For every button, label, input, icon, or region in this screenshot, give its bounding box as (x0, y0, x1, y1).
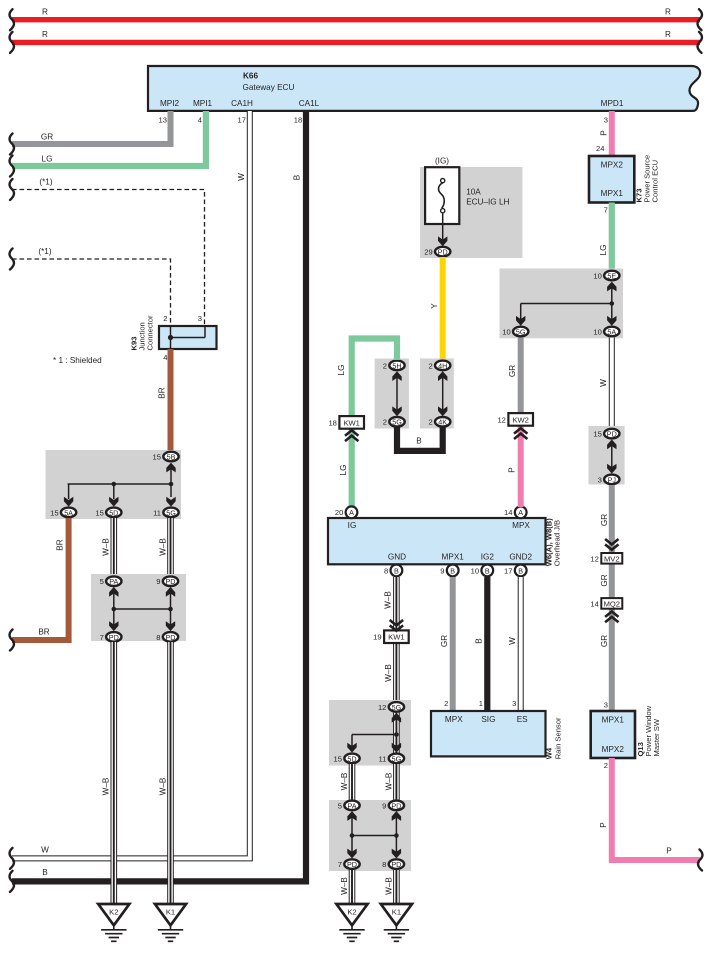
svg-text:10: 10 (471, 566, 479, 575)
wire break (10, 249, 14, 270)
svg-text:GR: GR (600, 574, 609, 586)
svg-text:15: 15 (50, 508, 58, 517)
wire 4H to 4K (442, 375, 444, 412)
svg-text:8: 8 (156, 633, 160, 642)
svg-text:LG: LG (339, 465, 348, 476)
wire B (CA1L) (12, 111, 306, 881)
wire to 5D (113, 484, 115, 499)
svg-text:B: B (518, 566, 523, 575)
svg-text:LG: LG (42, 155, 53, 164)
svg-text:K1: K1 (392, 908, 401, 917)
wire W-B (5G to PD) (167, 518, 174, 576)
ground K2 (left) (98, 904, 129, 941)
svg-text:W: W (41, 846, 49, 855)
connector MV2 (12) (590, 553, 622, 564)
connector PD (382, 801, 404, 811)
svg-text:3: 3 (198, 314, 202, 323)
svg-text:4: 4 (163, 353, 167, 362)
svg-text:BR: BR (158, 387, 167, 398)
connector PA (100, 576, 122, 586)
wire R (bus 2) (12, 40, 700, 45)
svg-text:PJ: PJ (608, 475, 617, 484)
wire W-B (5D to PA) (349, 764, 356, 800)
svg-text:W: W (237, 173, 246, 181)
connector 5G (153, 508, 179, 518)
wire (5B to bus) (170, 466, 172, 497)
wire GR (PJ to Q13 via MV2/MQ2) (609, 485, 615, 711)
svg-text:2: 2 (383, 361, 387, 370)
arrow into 5G (11) (392, 743, 401, 753)
svg-text:P: P (666, 847, 672, 856)
svg-text:MPX1: MPX1 (442, 552, 465, 561)
wire W-B (5D to PA) (111, 518, 118, 576)
svg-text:17: 17 (504, 566, 512, 575)
pin 17 B (J/B GND2) (504, 565, 527, 577)
wire 5H to 5G (396, 375, 398, 412)
svg-text:MQ2: MQ2 (604, 599, 620, 608)
svg-text:9: 9 (382, 801, 386, 810)
connector 5H (383, 361, 405, 371)
svg-text:W–B: W–B (340, 772, 349, 790)
bus wire (352, 835, 396, 837)
shaded junction block (5E/5G/5A) (500, 269, 624, 339)
svg-text:5H: 5H (392, 361, 401, 370)
svg-text:B: B (42, 868, 48, 877)
ground K1 (middle) (381, 904, 412, 941)
wire break (10, 179, 14, 200)
wire W (GND2 to rain sensor ES) (518, 577, 524, 711)
svg-text:KW1: KW1 (343, 418, 359, 427)
svg-text:IG: IG (348, 521, 357, 530)
arrow into 5A (64, 497, 73, 507)
pin 10 B (J/B IG2) (471, 565, 494, 577)
wire W-B (PD to ground K1) (167, 642, 174, 904)
connector PD (593, 429, 619, 439)
connector PA (338, 801, 360, 811)
wire P (MPD1 to K73) (609, 111, 615, 156)
svg-text:14: 14 (590, 599, 598, 608)
junction left (350, 833, 355, 838)
svg-text:PD: PD (391, 860, 401, 869)
svg-text:MPX2: MPX2 (602, 745, 625, 754)
svg-text:P: P (599, 822, 608, 828)
shield wire (*1) to K93 pin 2 (12, 259, 171, 326)
svg-text:20: 20 (335, 508, 343, 517)
svg-text:K2: K2 (109, 908, 118, 917)
arrow into PA (109, 587, 118, 597)
junction at 5G branch (169, 482, 174, 487)
arrow into 5A (10) (607, 316, 616, 326)
svg-text:2: 2 (163, 314, 167, 323)
svg-text:2: 2 (604, 761, 608, 770)
arrow into PD (8) (392, 849, 401, 859)
svg-text:5B: 5B (167, 452, 176, 461)
svg-text:13: 13 (159, 115, 167, 124)
svg-text:MPX: MPX (512, 521, 530, 530)
bus wire (68, 483, 171, 485)
svg-text:Rain Sensor: Rain Sensor (553, 717, 562, 759)
arrow into 5B (166, 463, 175, 473)
connector 5G (383, 417, 405, 427)
svg-text:PA: PA (109, 577, 118, 586)
fuse 10A ECU-IG LH (425, 167, 459, 224)
svg-text:2: 2 (428, 418, 432, 427)
connector PD (424, 247, 450, 257)
connector 5G (502, 327, 528, 337)
wire W-B (through 5G block) (393, 710, 400, 755)
svg-text:12: 12 (378, 703, 386, 712)
svg-text:15: 15 (95, 508, 103, 517)
wire fuse to 29 PD (442, 213, 444, 240)
svg-text:ES: ES (517, 715, 528, 724)
svg-text:19: 19 (373, 633, 381, 642)
connector MQ2 (14) (590, 598, 622, 609)
wire W (CA1H) (12, 111, 250, 858)
svg-text:17: 17 (238, 115, 246, 124)
svg-text:Control ECU: Control ECU (651, 160, 660, 203)
junction (610, 301, 615, 306)
svg-text:9: 9 (156, 577, 160, 586)
wire W (5A to PD) (609, 338, 615, 430)
svg-text:(*1): (*1) (39, 178, 52, 187)
arrow into 5E (607, 282, 616, 292)
arrow into 5G (2) (392, 406, 401, 416)
svg-text:Connector: Connector (146, 315, 155, 351)
svg-text:10A: 10A (466, 188, 481, 197)
svg-text:3: 3 (512, 699, 516, 708)
wire to 5D (351, 735, 353, 748)
junction right (168, 607, 173, 612)
svg-text:5G: 5G (166, 508, 176, 517)
svg-text:PD: PD (607, 430, 617, 439)
svg-text:W–B: W–B (159, 538, 168, 556)
wire W-B (PD to ground K2) (349, 870, 356, 904)
connector 5A (50, 508, 76, 518)
svg-text:15: 15 (593, 430, 601, 439)
svg-text:W–B: W–B (384, 591, 393, 609)
svg-text:MPX1: MPX1 (602, 716, 625, 725)
arrow into PJ (3) (607, 464, 616, 474)
wire to 5G (520, 304, 522, 321)
pin 14 A (J/B MPX) (504, 506, 527, 518)
connector 4H (428, 361, 450, 371)
svg-text:3: 3 (604, 115, 608, 124)
wire break (10, 156, 14, 177)
connector KW1 (18) (328, 416, 364, 429)
arrow into PD (7) (347, 849, 356, 859)
svg-text:W4: W4 (544, 747, 553, 759)
svg-text:B: B (450, 566, 455, 575)
bus wire (521, 303, 612, 305)
wire 5E bus (611, 287, 613, 320)
svg-text:Gateway ECU: Gateway ECU (243, 83, 295, 92)
svg-text:P: P (600, 130, 609, 136)
shaded junction block (4H/4K) (420, 359, 454, 429)
wire PA to PD (351, 816, 353, 852)
svg-text:A: A (349, 508, 354, 517)
svg-text:7: 7 (604, 206, 608, 215)
connector KW2 (12) (497, 413, 533, 426)
svg-text:W: W (508, 637, 517, 645)
svg-text:5A: 5A (607, 327, 616, 336)
shaded junction block (PA/PD) middle (329, 800, 411, 871)
svg-text:10: 10 (593, 327, 601, 336)
svg-text:PD: PD (347, 860, 357, 869)
wire break (10, 134, 14, 155)
wire P (Q13 MPX2 to splice) (612, 758, 700, 860)
svg-text:(IG): (IG) (435, 157, 449, 166)
svg-text:R: R (42, 30, 48, 39)
connector 5D (334, 754, 360, 764)
junction (394, 732, 399, 737)
svg-text:2: 2 (444, 699, 448, 708)
wire to 5A (68, 484, 70, 499)
svg-text:5E: 5E (607, 271, 616, 280)
svg-text:5G: 5G (392, 703, 402, 712)
svg-text:2: 2 (428, 361, 432, 370)
svg-text:CA1H: CA1H (231, 99, 253, 108)
svg-text:W–B: W–B (384, 664, 393, 682)
svg-text:12: 12 (590, 554, 598, 563)
wire 5G bus (395, 722, 397, 747)
svg-text:K2: K2 (347, 908, 356, 917)
ground K2 (middle) (336, 904, 367, 941)
svg-text:IG2: IG2 (481, 552, 495, 561)
wire W-B (PD to ground K1) (393, 870, 400, 904)
svg-text:B: B (485, 566, 490, 575)
connector KW1 (19) (373, 630, 409, 643)
svg-text:1: 1 (479, 699, 483, 708)
wire break (698, 850, 702, 871)
connector PJ (598, 475, 620, 485)
connector PD (156, 576, 178, 586)
svg-text:W–B: W–B (102, 777, 111, 795)
arrow into 5D (109, 497, 118, 507)
arrow into 4H (438, 371, 447, 381)
connector PD (100, 632, 122, 642)
svg-text:10: 10 (502, 327, 510, 336)
wire LG (5H to J/B IG via KW1) (352, 339, 397, 508)
svg-text:PD: PD (109, 633, 119, 642)
svg-text:GR: GR (600, 514, 609, 526)
svg-text:GR: GR (600, 635, 609, 647)
sensor W4 Rain Sensor (431, 711, 546, 756)
svg-text:3: 3 (604, 701, 608, 710)
shaded junction block (5B/5A/5D/5G) (46, 450, 182, 519)
svg-text:PD: PD (166, 577, 176, 586)
arrow into PD (8) (166, 621, 175, 631)
svg-text:GR: GR (41, 133, 53, 142)
svg-text:MPX1: MPX1 (601, 189, 624, 198)
svg-text:8: 8 (382, 860, 386, 869)
svg-text:A: A (518, 508, 523, 517)
svg-text:5G: 5G (392, 754, 402, 763)
svg-text:7: 7 (100, 633, 104, 642)
svg-text:5D: 5D (347, 754, 356, 763)
junction left (112, 607, 117, 612)
svg-text:PD: PD (166, 633, 176, 642)
wire Y (fuse to 4H) (440, 257, 446, 360)
svg-text:5A: 5A (64, 508, 73, 517)
shaded junction block (5H/5G) (375, 359, 409, 429)
svg-text:B: B (416, 437, 422, 446)
arrow into PD (15) (607, 439, 616, 449)
junction box W6(A) W8(B) Overhead J/B (328, 518, 546, 564)
svg-text:Overhead J/B: Overhead J/B (552, 520, 561, 566)
svg-text:5G: 5G (516, 327, 526, 336)
coupler chevron below MQ2 (605, 612, 618, 623)
svg-text:MPI1: MPI1 (193, 99, 213, 108)
wire PD to PD (170, 592, 172, 625)
svg-text:MPD1: MPD1 (601, 99, 624, 108)
connector PD (338, 859, 360, 869)
connector 5D (95, 508, 121, 518)
connector 4K (428, 417, 450, 427)
shaded junction block (PD/PJ) (589, 426, 625, 485)
svg-text:W–B: W–B (340, 877, 349, 895)
svg-text:18: 18 (294, 115, 302, 124)
svg-text:2: 2 (383, 418, 387, 427)
wire LG (MPI1) (12, 111, 206, 166)
svg-text:W–B: W–B (102, 538, 111, 556)
svg-text:K66: K66 (243, 72, 258, 81)
ground K1 (left) (155, 904, 186, 941)
svg-text:ECU–IG LH: ECU–IG LH (466, 197, 509, 206)
shaded junction block (5G/5D) (329, 700, 411, 766)
svg-text:PD: PD (438, 248, 448, 257)
svg-text:5: 5 (338, 801, 342, 810)
svg-text:W–B: W–B (385, 772, 394, 790)
svg-text:(*1): (*1) (38, 247, 51, 256)
svg-text:MPI2: MPI2 (160, 99, 180, 108)
wire LG (K73 to 5E) (609, 203, 615, 272)
connector 5E (593, 271, 619, 281)
svg-text:GR: GR (508, 365, 517, 377)
svg-text:R: R (665, 8, 671, 17)
connector PD (382, 859, 404, 869)
connector 5G (379, 754, 405, 764)
wire GR (MPI2) (12, 111, 171, 144)
svg-text:R: R (42, 8, 48, 17)
wire BR (K93 pin4 to 5B) (168, 349, 174, 452)
wire GR (MPX1 to rain sensor MPX) (450, 577, 456, 711)
wire break (10, 848, 14, 869)
svg-text:5G: 5G (392, 418, 402, 427)
svg-text:BR: BR (56, 539, 65, 550)
svg-text:GND2: GND2 (509, 552, 532, 561)
svg-text:* 1 : Shielded: * 1 : Shielded (53, 356, 102, 365)
wire B (IG2 to rain sensor SIG) (484, 577, 490, 711)
pin 9 B (J/B MPX1) (440, 565, 458, 577)
wire break (10, 630, 14, 651)
svg-text:18: 18 (328, 418, 336, 427)
svg-text:P: P (507, 467, 516, 473)
svg-text:K1: K1 (166, 908, 175, 917)
svg-text:15: 15 (334, 754, 342, 763)
svg-text:SIG: SIG (481, 715, 495, 724)
svg-text:11: 11 (379, 754, 387, 763)
svg-text:MV2: MV2 (604, 554, 620, 563)
svg-text:9: 9 (440, 566, 444, 575)
arrow into PD (9) (166, 587, 175, 597)
wire R (bus 1) (12, 17, 700, 22)
bus wire (352, 734, 396, 736)
wire BR (5A to splice) (12, 518, 69, 640)
svg-text:B: B (474, 638, 483, 644)
svg-text:PD: PD (391, 801, 401, 810)
svg-text:4: 4 (198, 115, 202, 124)
ECU K66 Gateway ECU (148, 66, 700, 111)
svg-text:10: 10 (593, 271, 601, 280)
svg-text:B: B (293, 174, 302, 180)
arrow into 4K (438, 406, 447, 416)
coupler chevron above MV2 (605, 539, 618, 550)
svg-text:LG: LG (337, 365, 346, 376)
svg-text:B: B (394, 566, 399, 575)
svg-text:W: W (599, 379, 608, 387)
arrow into 5H (392, 371, 401, 381)
connector 5G (378, 702, 404, 712)
svg-text:GR: GR (440, 635, 449, 647)
wire PD to PD (395, 816, 397, 852)
svg-text:15: 15 (153, 452, 161, 461)
wire break (698, 32, 702, 53)
junction right (394, 833, 399, 838)
junction at 5D branch (112, 482, 117, 487)
connector 5B (153, 452, 179, 462)
arrow into 5G (12) (392, 713, 401, 723)
wire break (698, 9, 702, 30)
pin 20 A (J/B IG) (335, 506, 358, 518)
coupler chevron below KW1 (345, 430, 358, 441)
wire break (10, 871, 14, 892)
svg-text:KW1: KW1 (388, 633, 404, 642)
svg-text:24: 24 (596, 144, 604, 153)
switch Q13 Power Window Master SW (591, 711, 635, 758)
junction connector K93 (159, 326, 217, 349)
svg-text:Y: Y (430, 303, 439, 309)
wire break (10, 9, 14, 30)
svg-text:GND: GND (388, 552, 406, 561)
wire W-B (GND to 5G via KW1) (393, 577, 400, 702)
svg-text:CA1L: CA1L (299, 99, 320, 108)
svg-text:5D: 5D (109, 508, 118, 517)
shaded fuse block (420, 167, 523, 258)
wire break (10, 32, 14, 53)
coupler chevron above KW1 (19) (390, 620, 403, 631)
coupler chevron below KW2 (514, 428, 527, 439)
wire W-B (5G to PD) (393, 764, 400, 800)
arrow into PD (7) (109, 621, 118, 631)
svg-text:3: 3 (598, 475, 602, 484)
arrow into 5G (10) (516, 316, 525, 326)
arrow into PD (9) (392, 811, 401, 821)
shield wire (*1) to K93 pin 3 (12, 190, 205, 327)
wire P (KW2 to J/B MPX) (518, 426, 524, 507)
bus wire (114, 608, 171, 610)
svg-text:R: R (665, 30, 671, 39)
svg-text:12: 12 (497, 415, 505, 424)
svg-text:LG: LG (599, 245, 608, 256)
svg-text:W–B: W–B (159, 777, 168, 795)
arrow into 5G (166, 497, 175, 507)
svg-text:MPX: MPX (445, 715, 463, 724)
svg-text:BR: BR (38, 628, 49, 637)
arrow into PD (29) (438, 236, 447, 246)
svg-text:29: 29 (424, 248, 432, 257)
ECU K73 Power Source Control ECU (589, 156, 634, 203)
wire PA to PD (113, 592, 115, 625)
